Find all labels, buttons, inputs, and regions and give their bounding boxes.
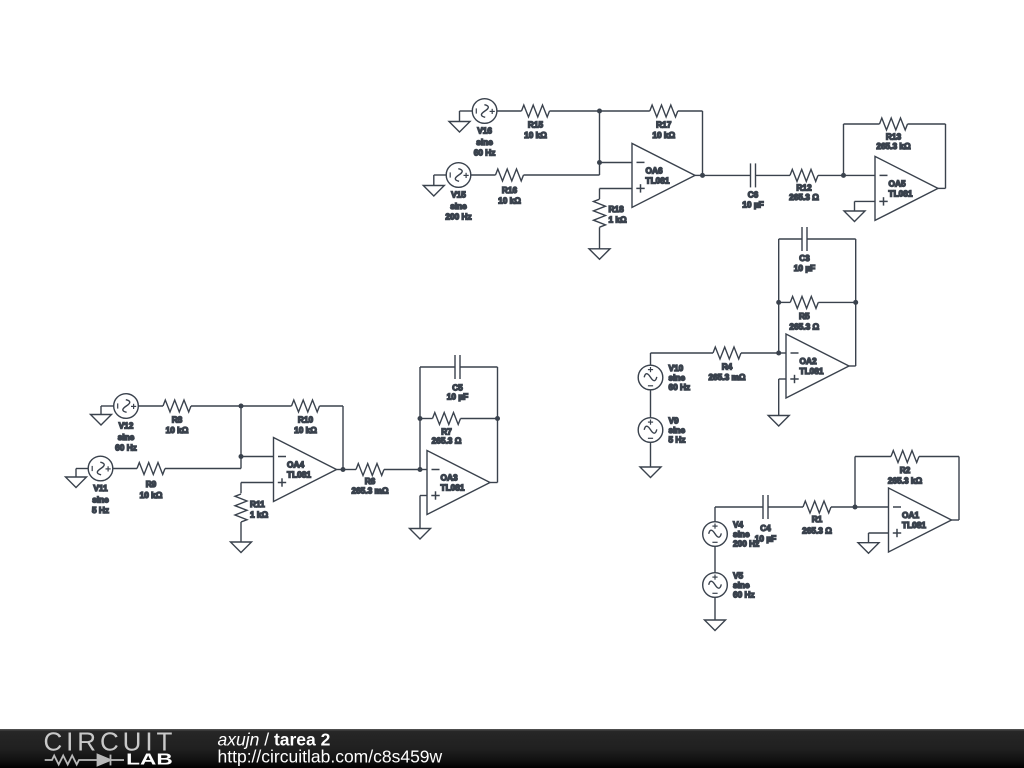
- svg-text:sine: sine: [92, 495, 109, 505]
- svg-text:5 Hz: 5 Hz: [669, 435, 686, 445]
- svg-text:OA3: OA3: [441, 473, 458, 483]
- svg-text:5 Hz: 5 Hz: [92, 505, 109, 515]
- svg-text:265.3 kΩ: 265.3 kΩ: [888, 476, 923, 486]
- svg-text:TL081: TL081: [287, 470, 311, 480]
- svg-text:R8: R8: [172, 415, 183, 425]
- svg-text:sine: sine: [733, 529, 750, 539]
- svg-text:V11: V11: [93, 483, 108, 493]
- svg-text:265.3 kΩ: 265.3 kΩ: [876, 141, 911, 151]
- svg-text:sine: sine: [733, 580, 750, 590]
- svg-text:V4: V4: [733, 520, 744, 530]
- svg-text:sine: sine: [669, 373, 686, 383]
- svg-text:10 µF: 10 µF: [755, 534, 776, 544]
- svg-text:265.3 Ω: 265.3 Ω: [789, 321, 819, 331]
- svg-text:R12: R12: [796, 182, 812, 192]
- svg-text:C6: C6: [748, 189, 759, 199]
- svg-text:V12: V12: [119, 421, 134, 431]
- svg-text:265.3 mΩ: 265.3 mΩ: [708, 372, 745, 382]
- svg-text:10 µF: 10 µF: [447, 392, 468, 402]
- svg-text:sine: sine: [669, 425, 686, 435]
- svg-text:10 kΩ: 10 kΩ: [294, 425, 317, 435]
- svg-text:TL081: TL081: [800, 366, 824, 376]
- svg-text:TL081: TL081: [441, 483, 465, 493]
- svg-text:C4: C4: [760, 523, 771, 533]
- svg-text:R15: R15: [528, 120, 544, 130]
- svg-text:265.3 Ω: 265.3 Ω: [802, 526, 832, 536]
- svg-text:OA4: OA4: [287, 460, 304, 470]
- svg-text:R6: R6: [365, 476, 376, 486]
- svg-text:10 µF: 10 µF: [742, 199, 763, 209]
- svg-text:10 kΩ: 10 kΩ: [524, 130, 547, 140]
- svg-text:R16: R16: [502, 185, 518, 195]
- svg-text:10 kΩ: 10 kΩ: [498, 196, 521, 206]
- svg-text:sine: sine: [450, 201, 467, 211]
- svg-text:sine: sine: [118, 432, 135, 442]
- svg-text:265.3 Ω: 265.3 Ω: [432, 436, 462, 446]
- svg-text:265.3 mΩ: 265.3 mΩ: [351, 486, 388, 496]
- svg-text:10 µF: 10 µF: [794, 263, 815, 273]
- svg-text:OA2: OA2: [800, 356, 817, 366]
- svg-text:R5: R5: [799, 311, 810, 321]
- svg-text:R18: R18: [609, 204, 625, 214]
- svg-text:10 kΩ: 10 kΩ: [166, 425, 189, 435]
- svg-text:V15: V15: [451, 190, 466, 200]
- svg-text:V16: V16: [477, 126, 492, 136]
- svg-text:200 Hz: 200 Hz: [445, 212, 471, 222]
- svg-text:V9: V9: [669, 416, 680, 426]
- svg-text:C3: C3: [799, 253, 810, 263]
- svg-text:V5: V5: [733, 571, 744, 581]
- svg-text:60 Hz: 60 Hz: [474, 148, 496, 158]
- svg-text:TL081: TL081: [902, 520, 926, 530]
- svg-text:R13: R13: [886, 132, 902, 142]
- svg-text:LAB: LAB: [126, 752, 173, 768]
- svg-text:1 kΩ: 1 kΩ: [250, 510, 269, 520]
- svg-text:10 kΩ: 10 kΩ: [140, 490, 163, 500]
- svg-text:TL081: TL081: [646, 176, 670, 186]
- svg-text:R2: R2: [900, 465, 911, 475]
- svg-text:OA1: OA1: [902, 510, 919, 520]
- svg-text:V10: V10: [669, 363, 684, 373]
- svg-text:R4: R4: [722, 362, 733, 372]
- svg-text:sine: sine: [476, 137, 493, 147]
- svg-text:R17: R17: [656, 120, 672, 130]
- svg-text:60 Hz: 60 Hz: [669, 382, 691, 392]
- svg-text:TL081: TL081: [889, 189, 913, 199]
- svg-text:OA5: OA5: [889, 179, 906, 189]
- svg-text:10 kΩ: 10 kΩ: [652, 130, 675, 140]
- svg-text:R1: R1: [812, 514, 823, 524]
- svg-text:R11: R11: [250, 499, 265, 509]
- svg-text:OA6: OA6: [646, 166, 663, 176]
- svg-text:R10: R10: [298, 415, 314, 425]
- svg-text:265.3 Ω: 265.3 Ω: [789, 192, 819, 202]
- svg-text:http://circuitlab.com/c8s459w: http://circuitlab.com/c8s459w: [218, 747, 443, 767]
- svg-text:60 Hz: 60 Hz: [115, 443, 137, 453]
- svg-text:R9: R9: [146, 479, 157, 489]
- svg-text:1 kΩ: 1 kΩ: [609, 215, 628, 225]
- svg-text:60 Hz: 60 Hz: [733, 590, 755, 600]
